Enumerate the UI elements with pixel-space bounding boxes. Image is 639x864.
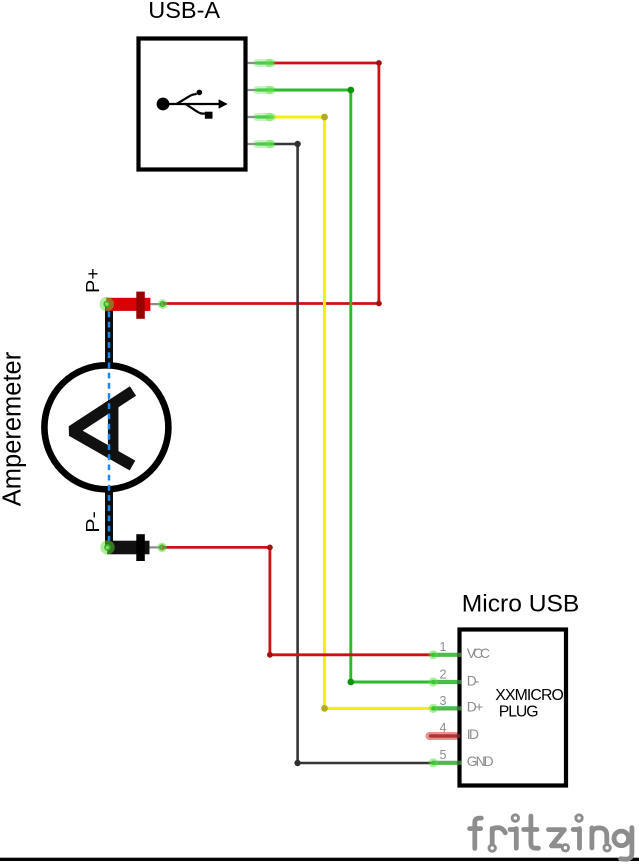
svg-text:P+: P+ [83,268,103,293]
svg-text:2: 2 [440,667,447,681]
svg-text:PLUG: PLUG [499,704,539,721]
svg-text:1: 1 [440,640,447,654]
svg-text:GND: GND [467,754,494,769]
svg-text:5: 5 [440,748,447,762]
svg-text:D+: D+ [467,700,483,715]
svg-text:ID: ID [467,727,479,742]
svg-text:Amperemeter: Amperemeter [0,351,27,506]
svg-text:VCC: VCC [467,646,490,661]
svg-text:4: 4 [440,721,447,735]
svg-text:Micro USB: Micro USB [462,590,580,617]
svg-text:XXMICRO: XXMICRO [495,687,564,704]
svg-text:3: 3 [440,694,447,708]
svg-text:USB-A: USB-A [148,0,220,23]
svg-text:P-: P- [83,511,103,533]
svg-text:D-: D- [467,673,480,688]
